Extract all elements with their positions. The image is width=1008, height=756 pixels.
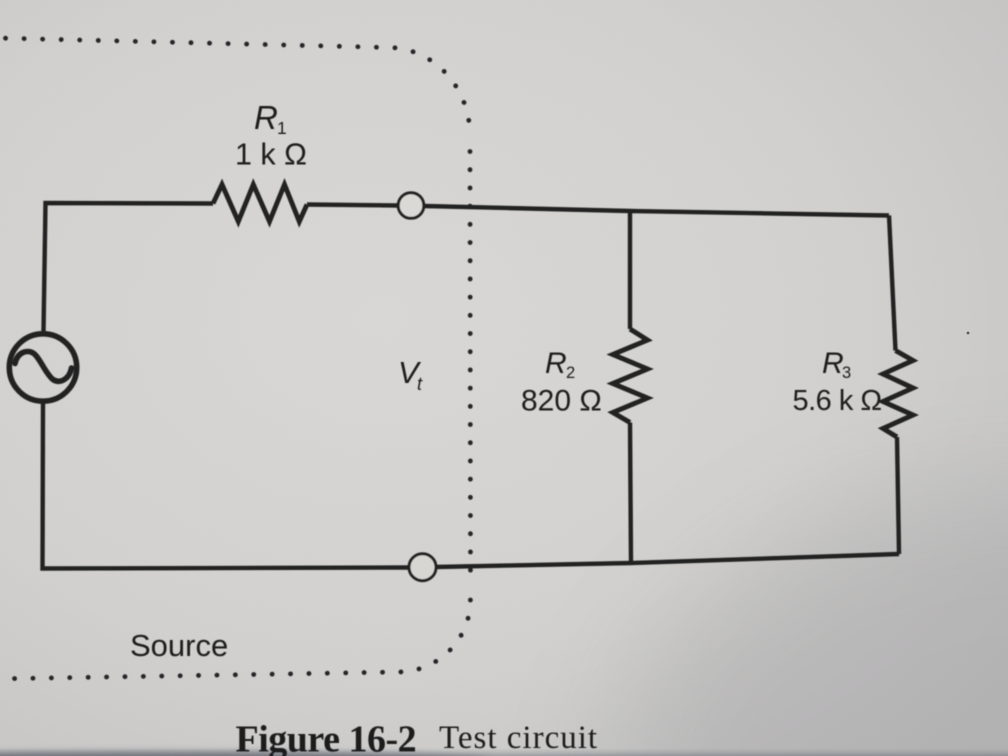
svg-text:Source: Source — [130, 628, 228, 663]
wire: top node to top-right corner (junction with R2 at x=630) — [425, 206, 890, 216]
wire: left vertical + top horizontal to R1 — [44, 203, 214, 331]
svg-text:1 k Ω: 1 k Ω — [235, 138, 307, 172]
node: bottom terminal circle — [409, 554, 436, 581]
svg-text:R: R — [822, 347, 844, 380]
svg-text:5.6 k Ω: 5.6 k Ω — [793, 385, 882, 417]
wire: R2 bottom to bottom wire — [630, 423, 631, 564]
node: top terminal circle — [398, 193, 424, 219]
wire: right vertical from top corner to R3 — [889, 216, 896, 351]
bottom-right corner vignette — [610, 480, 1008, 756]
dotted source-boundary border: top row and top-right corner — [6, 38, 471, 135]
svg-text:Test circuit: Test circuit — [439, 720, 598, 756]
paper speck artifact — [967, 332, 970, 335]
dotted source-boundary border: bottom-right corner and bottom row — [0, 600, 470, 679]
wire: R2 branch from top wire — [628, 211, 632, 329]
svg-text:1: 1 — [277, 118, 287, 138]
AC source V circle — [9, 334, 76, 401]
svg-text:R: R — [254, 99, 278, 136]
svg-text:Figure 16-2: Figure 16-2 — [236, 719, 417, 756]
resistor R2 zigzag — [613, 329, 648, 423]
bottom page-edge shadow — [0, 700, 1008, 756]
bottom-left page-edge dark smudge — [0, 751, 490, 756]
svg-text:3: 3 — [842, 364, 851, 382]
resistor R1 zigzag — [213, 185, 307, 222]
dotted source-boundary border: vertical run — [468, 152, 473, 584]
wire: bottom node to bottom-left corner + left vertical up to source — [43, 404, 410, 569]
AC source sine wave — [15, 352, 72, 382]
resistor R3 zigzag — [883, 351, 913, 438]
wire: R3 bottom to bottom-right corner — [897, 437, 899, 554]
wire: bottom from right corner to bottom node (junction with R2 at x=631) — [436, 554, 899, 567]
svg-text:820 Ω: 820 Ω — [521, 385, 602, 418]
svg-text:R: R — [545, 347, 567, 380]
svg-text:2: 2 — [566, 364, 575, 382]
wire: R1 to top node — [307, 205, 398, 206]
